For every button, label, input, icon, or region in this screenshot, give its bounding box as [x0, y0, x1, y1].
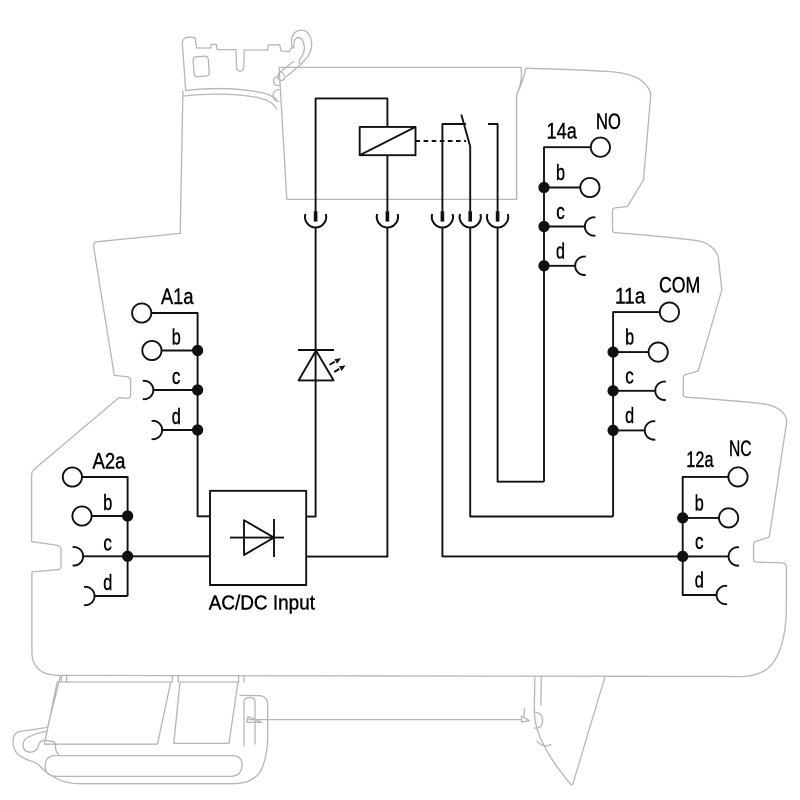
svg-text:A2a: A2a: [93, 449, 126, 474]
housing tier2 top edge: [94, 233, 181, 246]
terminal A2a d clamp: [84, 587, 95, 605]
terminal 11a c clamp: [655, 382, 666, 400]
mechanical link dashed line: [416, 140, 467, 142]
wire A2a b: [91, 515, 127, 517]
housing latch lower links: [273, 62, 300, 102]
svg-text:AC/DC Input: AC/DC Input: [209, 592, 316, 615]
terminal 11a d clamp: [645, 421, 656, 439]
svg-text:d: d: [172, 404, 181, 429]
junction 11a d: [608, 425, 619, 436]
terminal A1a c clamp: [143, 381, 154, 399]
svg-text:COM: COM: [659, 272, 700, 297]
svg-text:c: c: [556, 199, 565, 224]
wire plug1 down through LED to rectifier right top: [306, 228, 315, 517]
11a bus wire: [613, 312, 660, 516]
junction A2a b: [122, 510, 133, 521]
switch moving arm (COM): [461, 115, 470, 212]
housing foot inner slot: [45, 756, 242, 777]
plug pin 4: [468, 211, 472, 221]
terminal 14a d clamp: [575, 257, 586, 275]
wire A2a d: [94, 595, 128, 597]
switch fixed contact 12 side: [442, 124, 466, 211]
din rail edge line: [247, 719, 522, 721]
housing right edge chain: [526, 68, 787, 607]
terminal 14a b: [580, 178, 599, 197]
terminal 14a a: [591, 138, 610, 157]
14a bus wire: [544, 147, 591, 482]
plug socket cup 4: [460, 214, 481, 227]
12a bus lower: [683, 556, 718, 595]
svg-text:14a: 14a: [547, 119, 578, 144]
rectifier diode triangle: [244, 520, 274, 555]
12a bus wire: [683, 477, 729, 557]
terminal 11a b: [649, 343, 668, 362]
wire 14a d: [544, 265, 576, 267]
junction A1a b: [192, 345, 203, 356]
terminal A1a a: [132, 303, 151, 322]
housing right clip: [534, 677, 605, 785]
svg-text:c: c: [695, 529, 704, 554]
svg-text:d: d: [556, 238, 565, 263]
rectifier box U1: [210, 491, 306, 585]
LED D1 triangle: [299, 351, 334, 381]
A1a bus wire: [151, 313, 210, 516]
wire A2a c to rectifier input: [82, 555, 210, 557]
svg-text:A1a: A1a: [161, 284, 194, 309]
svg-text:b: b: [103, 490, 112, 515]
LED D1 emission arrows: [330, 358, 346, 372]
plug pin 1: [314, 211, 318, 221]
terminal 12a d clamp: [717, 586, 728, 604]
junction 14a d: [538, 260, 549, 271]
wire plug5 down and across to 14a bus (NO net): [498, 228, 544, 482]
wire 14a c: [544, 226, 586, 228]
housing right clip inner detail: [534, 677, 551, 746]
plug socket cup 3: [432, 214, 453, 227]
wire 12a b: [683, 517, 720, 519]
A2a bus wire: [82, 477, 128, 596]
svg-text:b: b: [172, 325, 181, 350]
rectifier diode cathode bar: [273, 519, 275, 557]
plug socket cup 1: [305, 214, 326, 227]
svg-text:NO: NO: [596, 109, 621, 134]
junction 14a c: [538, 221, 549, 232]
terminal A2a c clamp: [73, 547, 84, 565]
din rail end wedge left: [247, 717, 262, 723]
svg-text:d: d: [103, 570, 112, 595]
terminal A1a b: [142, 341, 161, 360]
junction A1a d: [192, 424, 203, 435]
relay coil K1: [360, 127, 416, 155]
plug pin 3: [441, 211, 445, 221]
housing foot panel 2: [174, 682, 238, 743]
wire A1a c: [152, 389, 197, 391]
plug pin 2: [386, 211, 390, 221]
junction 12a b: [677, 512, 688, 523]
housing foot left curl: [23, 731, 58, 755]
terminal 11a a: [660, 303, 679, 322]
housing right section left edge: [517, 68, 526, 199]
terminal A2a b: [72, 506, 91, 525]
housing latch eye hole: [193, 56, 210, 77]
housing foot panel 1: [44, 682, 170, 744]
housing neck left edge: [180, 91, 183, 234]
plug socket cup 5: [487, 214, 508, 227]
wire plug3 down and across to 12a bus (NC net): [442, 228, 682, 557]
svg-text:NC: NC: [729, 436, 752, 461]
junction 11a b: [608, 347, 619, 358]
terminal A1a d clamp: [152, 421, 163, 439]
housing tier2 left edge with A1a-c funnel and tier3 slant: [32, 247, 131, 476]
svg-text:d: d: [695, 568, 704, 593]
svg-text:d: d: [625, 403, 634, 428]
terminal A2a a: [63, 467, 82, 486]
switch fixed contact 14 side: [488, 124, 498, 211]
wire 11a d: [613, 429, 646, 431]
junction A1a c: [192, 384, 203, 395]
plug pin 5: [496, 211, 500, 221]
housing bottom edge: [60, 608, 787, 677]
wire 11a b: [613, 351, 649, 353]
svg-text:b: b: [695, 490, 704, 515]
wire 12a c: [683, 555, 730, 557]
terminal 12a a: [728, 467, 747, 486]
junction 11a c: [608, 385, 619, 396]
terminal 14a c clamp: [585, 217, 596, 235]
junction A2a c: [122, 551, 133, 562]
wire A1a b: [161, 350, 197, 352]
wire relay coil bottom to plug2: [386, 155, 388, 211]
svg-text:12a: 12a: [686, 447, 714, 472]
housing foot rim ticks: [61, 675, 244, 682]
svg-text:c: c: [172, 364, 181, 389]
LED D1 cathode bar: [298, 349, 334, 351]
junction 12a c: [677, 551, 688, 562]
rectifier diode axis: [230, 537, 284, 539]
housing tier3 left edge with A2a-c funnel: [32, 476, 61, 676]
svg-text:c: c: [103, 530, 112, 555]
din rail end wedge right: [522, 709, 530, 723]
svg-text:b: b: [625, 325, 634, 350]
terminal 12a c clamp: [729, 547, 740, 565]
wire plug4 down and across to 11a bus (COM net): [470, 228, 613, 517]
housing relay compartment box: [279, 67, 521, 199]
plug socket cup 2: [377, 214, 398, 227]
wire 14a b: [544, 187, 581, 189]
wire 11a c: [613, 390, 656, 392]
housing foot outer profile: [13, 675, 268, 783]
svg-text:b: b: [556, 160, 565, 185]
svg-text:c: c: [625, 363, 634, 388]
BLACK SCHEMATIC: [63, 98, 748, 605]
svg-text:11a: 11a: [615, 283, 646, 308]
housing latch hook: [291, 30, 311, 65]
housing latch seat arcs: [184, 89, 277, 109]
housing latch outline: [182, 37, 292, 90]
wire A1a d: [161, 429, 197, 431]
wire plug2 down to rectifier output: [306, 228, 387, 557]
junction 14a b: [538, 182, 549, 193]
wire relay coil top (plug1 to coil via top loop): [316, 98, 388, 211]
housing foot rail pocket: [244, 698, 255, 747]
terminal 12a b: [719, 508, 738, 527]
